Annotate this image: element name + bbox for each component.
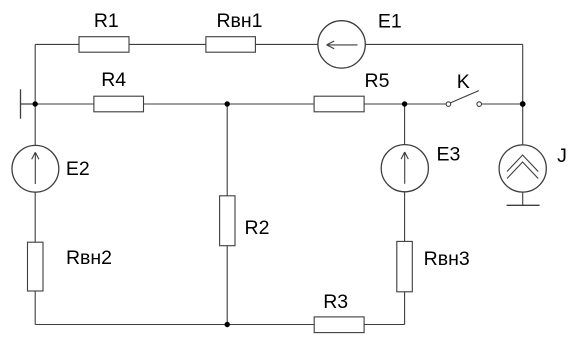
svg-text:Rвн2: Rвн2: [66, 247, 112, 269]
switch K: [446, 71, 481, 106]
wire bottom left horizontal: [35, 324, 314, 326]
resistor R3: [314, 291, 364, 333]
node E3 top: [402, 101, 407, 106]
svg-text:J: J: [557, 145, 567, 167]
resistor R2: [220, 196, 270, 246]
wire left vertical upper: [34, 44, 36, 145]
svg-text:R4: R4: [101, 69, 126, 91]
current source J: [499, 145, 567, 192]
ground bar under J: [507, 204, 540, 206]
svg-text:E1: E1: [378, 10, 402, 32]
node bottom: [225, 322, 230, 327]
wire row2 left of switch: [35, 103, 446, 105]
wire node to E3: [404, 104, 406, 145]
wire bottom right horizontal: [364, 324, 405, 326]
ground terminal left: [21, 89, 36, 119]
svg-text:Rвн1: Rвн1: [216, 10, 262, 32]
wire Rvn2 to bottom: [34, 291, 36, 325]
wire row2 right of switch: [481, 103, 522, 105]
source E3: [381, 144, 460, 192]
svg-text:R5: R5: [365, 70, 390, 92]
svg-text:Rвн3: Rвн3: [424, 248, 470, 270]
resistor Rvn1: [206, 10, 263, 52]
wire right vertical upper: [522, 44, 524, 145]
node middle: [225, 101, 230, 106]
wire J to ground: [522, 192, 524, 205]
wire top right horizontal: [365, 43, 522, 45]
svg-text:K: K: [457, 71, 470, 93]
resistor R5: [314, 70, 390, 112]
wire E2 to Rvn2: [34, 192, 36, 242]
svg-text:R1: R1: [94, 10, 119, 32]
wire top left horizontal: [35, 43, 318, 45]
resistor Rvn3: [397, 241, 470, 291]
svg-text:E3: E3: [436, 144, 460, 166]
wire middle vertical: [226, 104, 228, 325]
node left: [33, 101, 38, 106]
resistor R1: [79, 10, 129, 52]
source E1: [318, 10, 402, 68]
svg-text:R3: R3: [323, 291, 348, 313]
node right: [520, 101, 526, 107]
resistor R4: [94, 69, 144, 112]
svg-text:E2: E2: [66, 158, 90, 180]
resistor Rvn2: [28, 242, 113, 291]
wire E3 to Rvn3: [404, 192, 406, 242]
source E2: [12, 145, 90, 192]
wire Rvn3 to bottom: [404, 292, 406, 325]
svg-text:R2: R2: [245, 217, 270, 239]
